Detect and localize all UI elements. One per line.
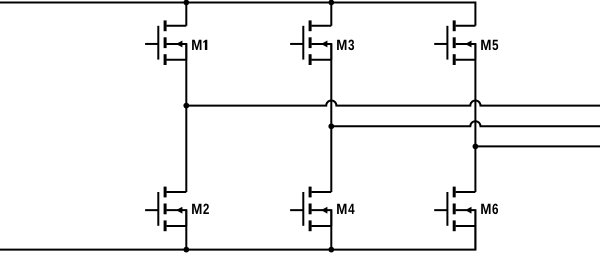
wire phase A output from node A with hops over columns B and C	[186, 100, 600, 105]
wire phase C output from node C	[475, 145, 600, 147]
label M3	[337, 40, 354, 51]
wire top supply rail (VDD)	[0, 3, 475, 26]
junction dot node B	[328, 123, 334, 129]
junction dot M3 drain at top rail	[328, 0, 334, 5]
wire M1 drain to top rail	[185, 3, 187, 26]
label M4	[337, 204, 354, 214]
junction dot M1 drain at top rail	[183, 0, 189, 5]
wire M5 source down through node C to M6 drain	[474, 44, 476, 192]
label M2	[192, 204, 209, 214]
transistor M6 (NMOS)	[434, 187, 475, 232]
transistor M4 (NMOS)	[290, 187, 331, 232]
junction dot M2 source at bottom rail	[183, 247, 189, 253]
transistor M1 (NMOS)	[145, 20, 186, 65]
wire phase B output from node B with hop over column C	[331, 121, 600, 126]
wire node A down to M2 drain	[185, 106, 187, 192]
label M1	[192, 40, 207, 50]
junction dot node A	[183, 103, 189, 109]
transistor M5 (NMOS)	[434, 20, 475, 65]
wire bottom supply rail (GND)	[0, 226, 475, 250]
label M6	[481, 204, 498, 214]
wire M3 source down through node B to M4 drain	[330, 44, 332, 192]
wire M6 source to bottom rail	[474, 210, 476, 249]
junction dot M4 source at bottom rail	[328, 247, 334, 253]
junction dot node C	[473, 144, 479, 150]
wire M3 drain to top rail	[330, 3, 332, 26]
wire M4 source to bottom rail	[330, 210, 332, 249]
wire M2 source to bottom rail	[185, 210, 187, 249]
transistor M2 (NMOS)	[145, 187, 186, 232]
wire M1 source down to node A	[185, 44, 187, 106]
transistor M3 (NMOS)	[290, 20, 331, 65]
label M5	[481, 40, 498, 50]
